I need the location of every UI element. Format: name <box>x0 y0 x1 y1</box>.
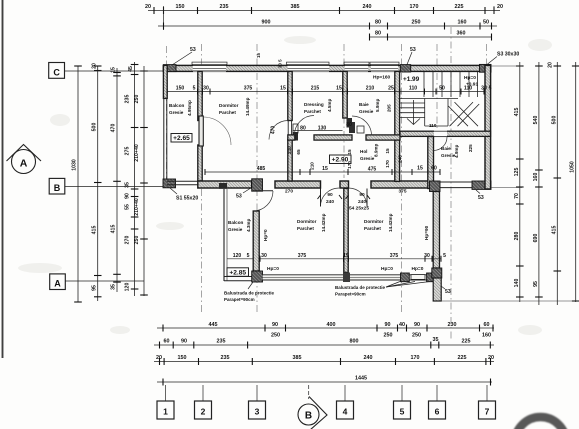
svg-text:80: 80 <box>300 126 306 132</box>
svg-text:Dormitor: Dormitor <box>364 219 384 224</box>
stair break diagonals <box>448 106 468 126</box>
room label hol <box>360 144 379 161</box>
level box +2.85 lower balcon <box>227 268 249 277</box>
svg-text:+2.85: +2.85 <box>229 269 246 276</box>
svg-text:Parchet: Parchet <box>364 226 381 231</box>
svg-text:80: 80 <box>346 122 352 128</box>
svg-text:4.95mp: 4.95mp <box>187 100 192 116</box>
right dim vertical line C <box>556 62 558 305</box>
svg-text:Dormitor: Dormitor <box>297 219 317 224</box>
svg-text:415: 415 <box>551 226 557 235</box>
door leaf dormitor upper <box>199 116 203 146</box>
label Hp=0 +0.91 stairs <box>464 75 478 88</box>
svg-text:270: 270 <box>125 236 131 245</box>
svg-text:25: 25 <box>388 86 394 92</box>
window strip on middle wall right <box>439 181 473 183</box>
column S1 at left-middle <box>163 179 176 188</box>
svg-text:14.42mp: 14.42mp <box>388 213 393 232</box>
svg-text:A: A <box>54 279 61 289</box>
svg-text:160: 160 <box>458 20 467 26</box>
room label balcon upper <box>169 100 192 116</box>
svg-text:235: 235 <box>217 339 226 345</box>
svg-text:60: 60 <box>431 166 437 172</box>
svg-text:Parchet: Parchet <box>219 110 236 115</box>
svg-text:15: 15 <box>280 86 286 92</box>
stair treads upper flight (vertical) <box>423 72 425 97</box>
svg-text:250: 250 <box>134 236 140 245</box>
svg-text:250: 250 <box>384 333 393 339</box>
lower right wall (dormitor2 right) <box>433 192 439 269</box>
svg-text:20: 20 <box>488 355 494 361</box>
top dim row1 line <box>148 10 500 12</box>
wall dormitor/dressing <box>288 71 292 120</box>
svg-text:240: 240 <box>363 4 372 10</box>
svg-text:54 25x25: 54 25x25 <box>349 206 369 212</box>
bottom dim row4 line 1445 <box>157 381 492 383</box>
svg-text:1050: 1050 <box>570 161 576 173</box>
door blob dressing <box>293 132 299 141</box>
lower section: balcon left balustrade <box>223 189 225 281</box>
door leaf baie1 <box>347 118 353 128</box>
svg-text:540: 540 <box>533 116 539 125</box>
svg-text:5: 5 <box>489 86 492 92</box>
svg-text:+0.91: +0.91 <box>466 82 478 88</box>
svg-text:30: 30 <box>424 253 430 259</box>
left outer wall upper part <box>163 65 167 98</box>
svg-text:500: 500 <box>92 123 98 132</box>
svg-text:900: 900 <box>262 20 271 26</box>
pier right <box>427 273 436 282</box>
svg-text:375: 375 <box>390 253 399 259</box>
left dim vertical line 4 <box>143 66 145 296</box>
pier at middle wall / lower right wall junction <box>430 181 441 192</box>
door arc lower dormitor 2 <box>349 188 368 207</box>
svg-text:15: 15 <box>322 166 328 172</box>
right dim vertical line B <box>538 62 540 305</box>
svg-text:415: 415 <box>92 226 98 235</box>
label 53 on middle wall <box>236 189 250 200</box>
top wall window 2 <box>287 62 330 72</box>
left dim rotated labels col3 <box>125 66 135 291</box>
svg-text:B: B <box>305 411 312 422</box>
right side extension lines <box>441 66 579 301</box>
svg-text:35: 35 <box>433 337 439 343</box>
svg-text:35: 35 <box>111 284 117 290</box>
svg-text:225: 225 <box>458 355 467 361</box>
svg-text:95: 95 <box>533 281 539 287</box>
svg-text:400: 400 <box>327 322 336 328</box>
svg-text:150: 150 <box>178 355 187 361</box>
svg-text:445: 445 <box>209 322 218 328</box>
top row1 labels <box>145 4 503 10</box>
svg-text:Hp=0: Hp=0 <box>263 229 268 241</box>
svg-text:90: 90 <box>414 322 420 328</box>
label S3 30x30 with leader <box>487 52 519 65</box>
svg-text:53: 53 <box>478 195 484 201</box>
wall between balcon and dormitor <box>198 71 202 120</box>
dim row lower rooms y=258.8 <box>260 258 441 260</box>
svg-text:2: 2 <box>201 407 206 417</box>
top row2 ticks <box>164 23 492 30</box>
lower balcon right wall <box>253 211 259 271</box>
top row2 labels <box>262 20 490 26</box>
svg-text:90: 90 <box>359 192 365 198</box>
room label baie2 <box>441 144 473 158</box>
fixtures in dressing bottom left <box>293 124 298 133</box>
svg-text:15: 15 <box>385 148 390 154</box>
svg-text:415: 415 <box>514 108 520 117</box>
svg-text:80: 80 <box>375 20 381 26</box>
right dim vertical line D <box>575 62 577 302</box>
svg-text:53: 53 <box>445 289 451 295</box>
svg-text:280: 280 <box>514 232 520 241</box>
svg-text:B: B <box>54 183 61 193</box>
svg-text:225: 225 <box>468 144 473 152</box>
left dim vertical line 0 (1030 total) <box>77 66 79 302</box>
svg-text:170: 170 <box>411 355 420 361</box>
svg-text:Parchet: Parchet <box>297 226 314 231</box>
svg-text:90: 90 <box>181 339 187 345</box>
dim 80 130 in dressing y=129 <box>293 130 343 132</box>
svg-text:14.42mp: 14.42mp <box>321 213 326 232</box>
left dim vertical line 3 <box>134 62 136 296</box>
svg-text:Balcon: Balcon <box>228 220 244 225</box>
svg-text:110: 110 <box>409 86 417 92</box>
svg-text:80: 80 <box>375 31 381 37</box>
svg-text:8.9mp: 8.9mp <box>374 144 379 157</box>
svg-text:415: 415 <box>111 225 117 234</box>
svg-text:90: 90 <box>385 322 391 328</box>
right dim rotated labels <box>514 62 576 287</box>
svg-text:6: 6 <box>435 407 440 417</box>
svg-text:Balustrada de protectie: Balustrada de protectie <box>224 291 275 296</box>
middle wall segment 3 <box>371 181 430 188</box>
pier below central wall <box>343 273 350 283</box>
svg-text:500: 500 <box>551 116 557 125</box>
door arc lower dormitor 1 <box>321 188 340 207</box>
svg-text:225: 225 <box>462 339 471 345</box>
svg-text:5: 5 <box>193 86 196 92</box>
svg-text:15: 15 <box>111 67 117 73</box>
top wall window 1 <box>192 62 227 72</box>
svg-text:4.5mp: 4.5mp <box>327 99 332 112</box>
grid box B left <box>49 178 163 194</box>
svg-text:55: 55 <box>125 204 131 210</box>
svg-text:360: 360 <box>457 31 466 37</box>
door arc lower balcon (hinge at pier) <box>253 191 273 211</box>
svg-text:+2.65: +2.65 <box>173 135 190 142</box>
svg-text:Parapet=90cm: Parapet=90cm <box>224 297 255 302</box>
grid box 1 <box>157 385 174 419</box>
middle wall segment 2 <box>275 181 321 188</box>
svg-text:240: 240 <box>364 355 373 361</box>
svg-text:+2.90: +2.90 <box>332 157 349 164</box>
bottom band: balcon balustrade <box>224 277 253 281</box>
dim row inside upper band y=91 <box>167 91 484 93</box>
svg-text:7: 7 <box>485 407 490 417</box>
svg-text:Dressing: Dressing <box>304 102 324 107</box>
svg-text:5.9mp: 5.9mp <box>375 99 380 112</box>
small block top of lower balcon left <box>219 183 227 189</box>
svg-text:160: 160 <box>482 333 491 339</box>
top outer wall <box>163 65 490 71</box>
pier mid right <box>401 273 410 282</box>
svg-text:485: 485 <box>257 166 266 172</box>
svg-text:40: 40 <box>399 322 405 328</box>
grid box 3 <box>249 385 266 419</box>
grid box 6 <box>429 385 446 419</box>
svg-text:205: 205 <box>387 104 392 112</box>
middle wall B axis: segment 1 <box>198 181 252 188</box>
stairs bottom wall <box>400 131 491 136</box>
svg-text:170: 170 <box>410 4 419 10</box>
svg-text:20: 20 <box>548 62 554 68</box>
room label balcon lower <box>228 219 251 232</box>
right dim ticks <box>516 66 579 301</box>
column S3 top right corner <box>480 64 492 72</box>
Hp labels bottom <box>267 266 424 272</box>
svg-text:90: 90 <box>272 322 278 328</box>
svg-text:210+40: 210+40 <box>134 144 140 162</box>
column S top-left corner <box>163 65 176 72</box>
svg-text:30: 30 <box>203 86 209 92</box>
svg-text:210: 210 <box>310 162 315 170</box>
svg-text:53: 53 <box>410 47 416 53</box>
left dim rotated labels col1 <box>92 63 98 291</box>
room label dormitor upper <box>219 97 250 116</box>
top dim row2 line <box>158 25 497 27</box>
grid box 4 <box>337 385 354 419</box>
svg-text:Dormitor: Dormitor <box>219 103 239 108</box>
svg-text:Hol: Hol <box>360 149 367 154</box>
svg-text:250: 250 <box>412 20 421 26</box>
svg-text:15: 15 <box>336 86 342 92</box>
left dim rotated label 1030 <box>72 159 78 171</box>
svg-text:4: 4 <box>343 407 348 417</box>
svg-text:235: 235 <box>220 4 229 10</box>
svg-text:30 5: 30 5 <box>278 59 283 68</box>
svg-text:65: 65 <box>296 149 301 155</box>
svg-text:385: 385 <box>293 355 302 361</box>
stamp ring bottom right <box>515 417 566 429</box>
svg-text:160: 160 <box>533 173 539 182</box>
svg-text:375: 375 <box>398 189 406 195</box>
svg-text:150: 150 <box>176 4 185 10</box>
svg-text:4.9mp: 4.9mp <box>454 145 459 158</box>
grid box 7 <box>479 385 496 419</box>
svg-text:+1.99: +1.99 <box>403 76 420 83</box>
svg-text:210+40: 210+40 <box>134 198 140 216</box>
grid box 2 <box>195 385 212 419</box>
svg-text:4.3mp: 4.3mp <box>246 219 251 232</box>
svg-text:140: 140 <box>514 279 520 288</box>
svg-text:385: 385 <box>291 4 300 10</box>
baie2 door arc <box>434 137 448 151</box>
svg-text:240: 240 <box>358 199 366 205</box>
svg-text:15: 15 <box>417 166 423 172</box>
dim 270 / 90-240 labels near middle wall doors <box>285 189 407 212</box>
svg-text:Hp=0: Hp=0 <box>267 266 279 272</box>
grid box A left <box>50 274 144 290</box>
svg-text:475: 475 <box>368 167 377 173</box>
svg-text:Hp=0: Hp=0 <box>412 266 424 272</box>
svg-text:1030: 1030 <box>72 159 78 171</box>
right column going down with 53 <box>432 268 442 278</box>
bottom window band dormitor2 <box>350 274 401 280</box>
svg-text:Hp=0: Hp=0 <box>381 266 393 272</box>
svg-text:Parapet=90cm: Parapet=90cm <box>335 292 366 297</box>
bottom dim row2 line <box>154 344 494 346</box>
svg-text:53: 53 <box>190 47 196 53</box>
svg-text:230: 230 <box>448 322 457 328</box>
svg-text:250: 250 <box>271 333 280 339</box>
svg-text:170: 170 <box>385 160 390 168</box>
svg-text:53: 53 <box>236 194 242 200</box>
svg-text:14.49mp: 14.49mp <box>245 97 250 116</box>
svg-text:470: 470 <box>111 124 117 133</box>
svg-text:375: 375 <box>298 253 307 259</box>
svg-text:1445: 1445 <box>355 376 367 382</box>
door arc dressing (opens up-left) <box>295 116 315 136</box>
svg-text:120: 120 <box>233 253 242 259</box>
svg-text:Gresie: Gresie <box>359 109 374 114</box>
svg-text:20: 20 <box>145 4 151 10</box>
room label baie1 <box>359 99 392 114</box>
svg-text:5: 5 <box>400 407 405 417</box>
svg-text:Parchet: Parchet <box>304 109 321 114</box>
svg-text:250: 250 <box>134 95 140 104</box>
svg-text:150: 150 <box>176 86 185 92</box>
top dim row3 line <box>370 36 492 38</box>
svg-text:15: 15 <box>343 253 349 259</box>
stair landing line <box>399 98 459 100</box>
svg-text:20: 20 <box>156 355 162 361</box>
room label dormitor2 lower <box>364 213 393 232</box>
svg-text:275: 275 <box>125 147 131 156</box>
dim row y=172 (485 / 475) <box>205 171 440 173</box>
balcon lower dim 120 5 / 30 <box>227 258 253 260</box>
stairs block <box>399 72 480 126</box>
bottom grid boxes 1-7 <box>157 385 496 419</box>
door arc baie1 (opens up-right) <box>352 116 372 136</box>
svg-text:215: 215 <box>311 86 320 92</box>
level box +2.65 <box>171 134 192 143</box>
section marker B bottom (circle + right pointer) <box>298 385 327 429</box>
svg-text:800: 800 <box>350 339 359 345</box>
svg-text:130: 130 <box>318 126 327 132</box>
stair treads left flight (horizontal) <box>400 102 425 104</box>
svg-text:Hp=90: Hp=90 <box>424 225 429 240</box>
svg-text:120: 120 <box>125 283 131 292</box>
svg-text:5: 5 <box>247 253 250 259</box>
svg-text:Baie: Baie <box>441 146 451 151</box>
svg-text:235: 235 <box>221 355 230 361</box>
wall dressing/baie <box>343 71 347 118</box>
bottom sub labels 250/250/250/160 <box>271 333 491 339</box>
middle wall right corner block <box>472 181 491 189</box>
svg-text:110: 110 <box>429 123 437 128</box>
svg-text:15: 15 <box>347 149 352 155</box>
svg-text:470: 470 <box>271 126 277 135</box>
svg-text:60: 60 <box>164 339 170 345</box>
svg-text:Gresie: Gresie <box>228 227 243 232</box>
svg-text:210: 210 <box>366 86 375 92</box>
label 53 mid with leader <box>407 47 416 65</box>
svg-text:A: A <box>20 158 28 170</box>
pier on middle wall at lower balcon corner <box>252 179 263 191</box>
label 53 right of middle wall <box>476 190 484 201</box>
right dim vertical line A <box>519 62 521 302</box>
door arc dormitor upper (faint) <box>203 117 231 145</box>
svg-text:20: 20 <box>92 63 98 69</box>
right outer wall <box>485 65 491 189</box>
svg-text:S1 55x20: S1 55x20 <box>176 196 198 202</box>
svg-text:375: 375 <box>244 86 253 92</box>
left dim vertical line 1 <box>97 66 99 301</box>
left balcony window (double line) <box>164 98 167 180</box>
top wall window 3 <box>344 62 369 72</box>
section marker A (triangle + circle) <box>7 145 42 174</box>
label S1 55x20 with leader <box>170 188 198 202</box>
svg-text:Baie: Baie <box>359 102 369 107</box>
bottom dim row1 line <box>157 327 494 329</box>
wall baie right <box>395 71 400 181</box>
stair direction arrow <box>407 119 420 125</box>
room label dormitor1 lower <box>297 213 326 232</box>
svg-text:20: 20 <box>497 4 503 10</box>
svg-text:30: 30 <box>261 253 267 259</box>
middle wall stub between doors <box>340 181 349 188</box>
svg-text:50: 50 <box>483 20 489 26</box>
svg-text:50: 50 <box>439 86 445 92</box>
window band small <box>409 275 426 280</box>
svg-text:5: 5 <box>443 253 446 259</box>
scan speckles <box>18 36 552 335</box>
svg-text:70: 70 <box>514 193 520 199</box>
left dim vertical line 2 <box>116 68 118 292</box>
small door ticks under middle doors <box>318 195 371 199</box>
svg-text:C: C <box>53 67 60 77</box>
svg-text:240: 240 <box>326 199 334 205</box>
column at baie right top <box>400 65 410 72</box>
svg-text:3: 3 <box>255 407 260 417</box>
svg-text:30: 30 <box>481 86 487 92</box>
room label dressing <box>304 99 332 114</box>
baie2 left wall <box>428 137 434 189</box>
door leaf dressing entry <box>288 121 291 140</box>
svg-text:250: 250 <box>412 333 421 339</box>
svg-text:240: 240 <box>398 155 403 163</box>
lower central wall <box>344 188 348 272</box>
left page border line <box>2 0 4 358</box>
svg-text:15: 15 <box>256 53 261 58</box>
svg-text:125: 125 <box>514 168 520 177</box>
pier S2 below balcon right wall <box>252 271 263 282</box>
svg-text:Balcon: Balcon <box>169 103 185 108</box>
balustrada labels with leaders <box>224 282 430 303</box>
svg-text:90: 90 <box>327 192 333 198</box>
svg-text:1: 1 <box>163 407 168 417</box>
svg-text:690: 690 <box>533 234 539 243</box>
level box +2.90 <box>330 155 352 164</box>
svg-text:S3 30x30: S3 30x30 <box>497 52 519 58</box>
top row1 ticks <box>154 7 494 14</box>
left dim rotated labels col4 <box>134 95 140 245</box>
fixtures in baie1 <box>349 122 355 133</box>
grid box 5 <box>394 385 411 419</box>
svg-text:Hp=160: Hp=160 <box>373 75 391 81</box>
svg-text:210: 210 <box>287 146 292 154</box>
